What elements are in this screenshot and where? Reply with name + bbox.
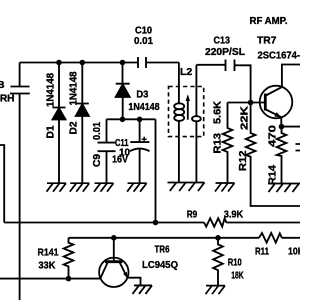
- diode D1 1N4148: [45, 63, 65, 184]
- svg-text:33K: 33K: [38, 260, 55, 272]
- svg-text:R9: R9: [187, 208, 198, 220]
- resistor R141 33K: [38, 238, 74, 279]
- svg-text:TR6: TR6: [155, 244, 170, 256]
- node dot TR6 base: [111, 235, 117, 241]
- svg-text:16V: 16V: [112, 154, 128, 166]
- resistor R13 5.6K: [213, 100, 233, 183]
- node dot R10 top: [215, 235, 221, 241]
- resistor R11 10K: [255, 233, 304, 257]
- node dot D2 top: [80, 60, 86, 66]
- coil L2 (shielded transformer): [169, 63, 204, 183]
- svg-text:R13: R13: [213, 133, 224, 154]
- node dot TR7 base: [248, 100, 254, 106]
- svg-text:0.01: 0.01: [134, 35, 153, 47]
- svg-text:220P/SL: 220P/SL: [205, 46, 246, 58]
- resistor R14 470: [268, 124, 287, 185]
- ground for R14 (wide, right edge): [268, 184, 300, 193]
- capacitor C11 10uF 16V electrolytic: [112, 119, 150, 183]
- svg-text:R12: R12: [238, 150, 249, 171]
- wire L2 secondary to C13: [196, 64, 225, 66]
- resistor R9 3.9K: [187, 208, 244, 226]
- resistor R12 22K: [238, 103, 300, 207]
- svg-text:2SC1674-: 2SC1674-: [258, 50, 301, 62]
- transistor TR6 LC945Q: [99, 238, 178, 287]
- svg-text:5.6K: 5.6K: [213, 100, 224, 124]
- wire node bus (D2/D3/C9/C11 row): [107, 118, 156, 120]
- svg-text:0.01: 0.01: [92, 122, 103, 140]
- wire lower bus 3 (TR6 collector line): [0, 278, 101, 280]
- capacitor C9 0.01: [92, 119, 116, 183]
- wire TR7 emitter to right edge: [282, 126, 301, 128]
- node dot bus1: [153, 220, 159, 226]
- svg-text:10K: 10K: [288, 245, 300, 257]
- svg-text:3.9K: 3.9K: [224, 209, 244, 221]
- ground for D1: [47, 183, 67, 192]
- wire base node to TR7: [228, 102, 266, 104]
- wire lower bus 2: [69, 237, 301, 239]
- svg-text:D2: D2: [69, 121, 80, 134]
- svg-text:1N4148: 1N4148: [128, 101, 159, 113]
- diode D2 1N4148: [69, 63, 89, 184]
- svg-text:R14: R14: [268, 165, 279, 185]
- ground for TR6 emitter: [133, 285, 153, 294]
- svg-text:1N4148: 1N4148: [69, 71, 80, 105]
- ground for R13: [215, 183, 235, 192]
- ground for C9: [94, 183, 114, 192]
- svg-text:TR7: TR7: [257, 35, 277, 47]
- node dot C11 top: [137, 117, 143, 123]
- wire C13 to TR7 base node: [235, 65, 251, 102]
- svg-text:LC945Q: LC945Q: [142, 259, 178, 271]
- wire lower bus 1: [4, 222, 300, 224]
- ground for D2: [70, 183, 90, 192]
- svg-text:D1: D1: [45, 125, 56, 138]
- wire from B/RH capacitor down to bottom edge: [19, 94, 21, 300]
- wire feeder from left edge: [0, 145, 4, 223]
- svg-text:/RH: /RH: [0, 93, 15, 105]
- capacitor C10 0.01: [134, 25, 153, 69]
- svg-text:D3: D3: [136, 89, 148, 101]
- ground for R10: [206, 286, 226, 295]
- capacitor at right edge (cut off): [296, 144, 301, 151]
- ground for L2 (wide): [168, 183, 205, 192]
- ground for C11: [127, 183, 147, 192]
- svg-text:1N4148: 1N4148: [45, 73, 56, 107]
- wire top bus: [20, 62, 138, 64]
- resistor R10 18K: [213, 238, 244, 286]
- wire node row down to lower bus: [155, 119, 157, 222]
- transistor TR7 2SC1674 RF AMP: [250, 15, 301, 126]
- svg-text:L2: L2: [180, 66, 192, 78]
- capacitor C13 220P/SL: [205, 35, 246, 72]
- wire C10 to L2 primary: [146, 62, 179, 64]
- capacitor B/VRH (left edge, cut off): [0, 63, 30, 105]
- svg-text:R10: R10: [228, 257, 242, 269]
- svg-text:RF AMP.: RF AMP.: [250, 15, 288, 27]
- node dot D3 bottom: [120, 117, 126, 123]
- svg-text:C13: C13: [214, 35, 231, 47]
- svg-text:C9: C9: [92, 154, 103, 167]
- node dot TR7 emitter: [279, 124, 285, 130]
- svg-text:R11: R11: [255, 245, 269, 257]
- svg-text:22K: 22K: [239, 105, 250, 130]
- svg-text:18K: 18K: [231, 269, 244, 281]
- node dot D3 top: [120, 60, 126, 66]
- node dot R141 bottom: [66, 276, 72, 282]
- svg-text:470: 470: [268, 124, 279, 147]
- svg-text:B: B: [0, 79, 5, 91]
- node dot D1 top: [56, 60, 62, 66]
- diode D3 1N4148: [116, 63, 160, 120]
- svg-text:R141: R141: [38, 247, 59, 259]
